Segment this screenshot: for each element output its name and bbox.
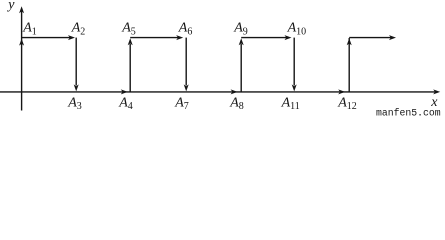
wire A4 up: [129, 44, 131, 92]
svg-text:A6: A6: [178, 21, 193, 38]
svg-text:A9: A9: [233, 21, 248, 38]
arrow head A4 to A5: [128, 38, 133, 45]
y-axis: [19, 6, 24, 110]
arrow head A6 to A7: [184, 84, 189, 91]
arrow head A3 to A4 (on x-axis): [121, 89, 128, 94]
svg-text:y: y: [6, 0, 15, 13]
svg-text:A8: A8: [229, 95, 244, 112]
wire A8 up: [240, 44, 242, 92]
arrow head A11 to A12 (on x-axis): [338, 89, 345, 94]
svg-text:manfen5.com: manfen5.com: [376, 107, 441, 117]
svg-text:A5: A5: [121, 21, 136, 38]
x-axis: [0, 89, 440, 94]
arrow head A12 up: [347, 38, 352, 45]
arrow head A2 to A3: [74, 84, 79, 91]
svg-text:A11: A11: [281, 95, 300, 112]
svg-text:A3: A3: [67, 95, 82, 112]
svg-text:A10: A10: [287, 21, 307, 38]
arrow head A10 to A11: [292, 84, 297, 91]
arrow A1 to A2: [22, 35, 75, 40]
wire A2 down: [75, 38, 77, 86]
arrow head A7 to A8 (on x-axis): [231, 89, 238, 94]
wire A10 down: [293, 38, 295, 86]
svg-text:A7: A7: [174, 95, 189, 112]
svg-text:A2: A2: [71, 21, 86, 38]
arrow head start to A1 (on y-axis): [19, 39, 24, 46]
arrow head A8 to A9: [239, 38, 244, 45]
arrow A12 onward right: [349, 35, 396, 40]
svg-text:A12: A12: [337, 95, 357, 112]
svg-text:A4: A4: [118, 95, 133, 112]
arrow A5 to A6: [130, 35, 183, 40]
svg-text:A1: A1: [22, 21, 37, 38]
wire A12 up: [348, 38, 350, 92]
arrow A9 to A10: [241, 35, 291, 40]
wire A6 down: [185, 38, 187, 86]
